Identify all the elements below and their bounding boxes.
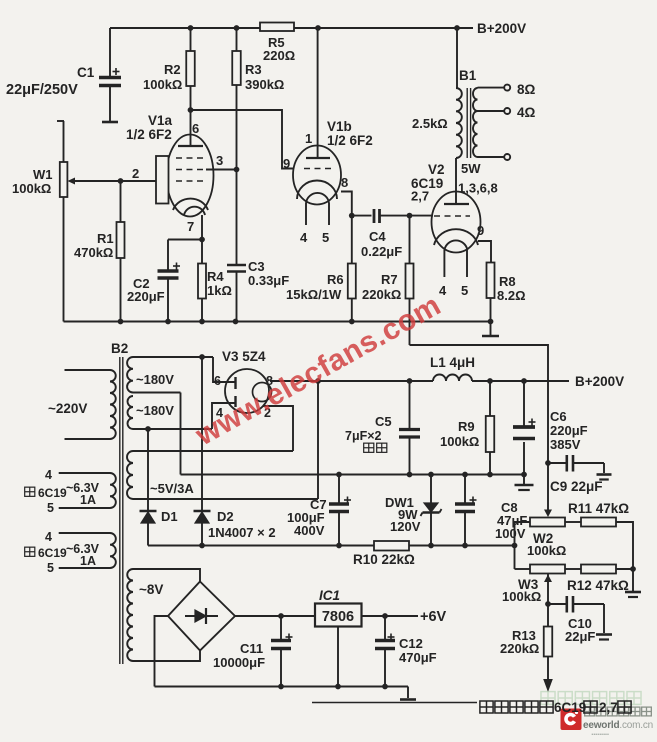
svg-text:R8: R8 (499, 274, 516, 289)
svg-text:R4: R4 (207, 269, 224, 284)
svg-text:5: 5 (47, 501, 54, 515)
svg-text:R10 22kΩ: R10 22kΩ (353, 552, 415, 567)
svg-text:R1: R1 (97, 231, 114, 246)
svg-text:2,7: 2,7 (599, 700, 618, 715)
svg-text:L1 4μH: L1 4μH (430, 355, 475, 370)
svg-text:eeworld.com.cn: eeworld.com.cn (583, 720, 653, 731)
svg-text:~5V/3A: ~5V/3A (150, 481, 194, 496)
svg-text:1/2 6F2: 1/2 6F2 (126, 127, 172, 142)
svg-text:7μF×2: 7μF×2 (345, 429, 382, 443)
svg-text:22μF/250V: 22μF/250V (6, 82, 78, 98)
svg-text:9: 9 (477, 223, 484, 238)
svg-text:6C19: 6C19 (411, 176, 443, 191)
svg-text:V2: V2 (428, 162, 445, 177)
svg-text:220μF: 220μF (127, 289, 165, 304)
svg-text:~8V: ~8V (139, 582, 163, 597)
svg-text:B+200V: B+200V (575, 374, 624, 389)
svg-text:R6: R6 (327, 272, 344, 287)
svg-text:22μF: 22μF (565, 629, 595, 644)
svg-text:R3: R3 (245, 62, 262, 77)
svg-text:3: 3 (216, 153, 223, 168)
svg-text:220Ω: 220Ω (263, 48, 295, 63)
svg-text:470kΩ: 470kΩ (74, 245, 113, 260)
svg-text:1kΩ: 1kΩ (207, 283, 232, 298)
svg-text:1N4007 × 2: 1N4007 × 2 (208, 525, 276, 540)
svg-text:100kΩ: 100kΩ (143, 77, 182, 92)
svg-text:100kΩ: 100kΩ (527, 543, 566, 558)
svg-text:5: 5 (322, 230, 329, 245)
svg-text:0.33μF: 0.33μF (248, 273, 289, 288)
svg-text:5W: 5W (461, 161, 481, 176)
svg-text:~180V: ~180V (136, 403, 174, 418)
svg-text:V1b: V1b (327, 119, 352, 134)
svg-text:1,3,6,8: 1,3,6,8 (458, 181, 498, 196)
svg-text:6C19: 6C19 (38, 546, 67, 560)
svg-text:W1: W1 (33, 167, 53, 182)
svg-text:470μF: 470μF (399, 650, 437, 665)
svg-text:C5: C5 (375, 414, 392, 429)
svg-text:B1: B1 (459, 68, 477, 83)
svg-text:C11: C11 (240, 641, 263, 656)
svg-text:4: 4 (45, 468, 52, 482)
svg-text:+6V: +6V (420, 609, 447, 625)
svg-text:C1: C1 (77, 65, 95, 80)
svg-text:8Ω: 8Ω (517, 82, 536, 97)
svg-text:B2: B2 (111, 341, 128, 356)
svg-text:~220V: ~220V (48, 401, 87, 416)
svg-text:C4: C4 (369, 229, 386, 244)
svg-text:C6: C6 (550, 409, 567, 424)
svg-text:385V: 385V (550, 437, 581, 452)
svg-text:1: 1 (305, 131, 312, 146)
svg-text:220μF: 220μF (550, 423, 588, 438)
svg-text:220kΩ: 220kΩ (500, 641, 539, 656)
svg-text:IC1: IC1 (319, 588, 340, 603)
svg-text:2: 2 (132, 166, 139, 181)
svg-text:5: 5 (47, 561, 54, 575)
svg-text:6C19: 6C19 (554, 700, 586, 715)
svg-text:4: 4 (300, 230, 308, 245)
svg-text:4: 4 (45, 530, 52, 544)
svg-text:R7: R7 (381, 272, 398, 287)
svg-text:1/2 6F2: 1/2 6F2 (327, 133, 373, 148)
svg-text:C12: C12 (399, 636, 423, 651)
svg-text:V1a: V1a (148, 113, 173, 128)
svg-text:390kΩ: 390kΩ (245, 77, 284, 92)
svg-text:1A: 1A (80, 493, 96, 507)
svg-text:5: 5 (461, 283, 468, 298)
svg-text:6C19: 6C19 (38, 486, 67, 500)
svg-text:8: 8 (341, 175, 348, 190)
svg-text:7806: 7806 (322, 609, 354, 625)
svg-text:4Ω: 4Ω (517, 105, 536, 120)
svg-text:10000μF: 10000μF (213, 655, 265, 670)
svg-text:0.22μF: 0.22μF (361, 244, 402, 259)
svg-text:220kΩ: 220kΩ (362, 287, 401, 302)
svg-text:C9 22μF: C9 22μF (550, 479, 603, 494)
svg-text:▪▪▪▪▪▪▪▪▪: ▪▪▪▪▪▪▪▪▪ (590, 732, 609, 738)
svg-text:100kΩ: 100kΩ (440, 434, 479, 449)
svg-text:D1: D1 (161, 509, 178, 524)
svg-text:100V: 100V (495, 526, 526, 541)
svg-text:R12 47kΩ: R12 47kΩ (567, 578, 629, 593)
svg-text:6: 6 (214, 374, 221, 388)
svg-text:2.5kΩ: 2.5kΩ (412, 116, 448, 131)
svg-text:15kΩ/1W: 15kΩ/1W (286, 287, 342, 302)
svg-text:C3: C3 (248, 259, 265, 274)
svg-text:D2: D2 (217, 509, 234, 524)
svg-text:400V: 400V (294, 523, 325, 538)
svg-text:R9: R9 (458, 419, 475, 434)
svg-text:4: 4 (439, 283, 447, 298)
svg-text:R11 47kΩ: R11 47kΩ (568, 501, 629, 516)
svg-text:120V: 120V (390, 519, 421, 534)
svg-text:V3 5Z4: V3 5Z4 (222, 349, 266, 364)
svg-text:100kΩ: 100kΩ (12, 181, 51, 196)
svg-text:1A: 1A (80, 554, 96, 568)
svg-text:R2: R2 (164, 62, 181, 77)
svg-text:7: 7 (187, 219, 194, 234)
svg-text:B+200V: B+200V (477, 21, 526, 36)
svg-text:~180V: ~180V (136, 372, 174, 387)
svg-text:9: 9 (283, 156, 290, 171)
svg-text:100kΩ: 100kΩ (502, 589, 541, 604)
svg-text:6: 6 (192, 121, 199, 136)
svg-text:8.2Ω: 8.2Ω (497, 288, 526, 303)
